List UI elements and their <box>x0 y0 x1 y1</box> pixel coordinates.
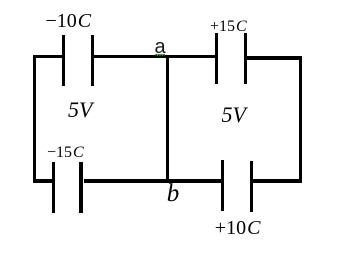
node a label <box>155 37 166 57</box>
node b label <box>167 181 180 206</box>
wire: right vertical <box>299 56 302 183</box>
wire: bottom-left horizontal (left corner to C3) <box>33 179 52 182</box>
capacitor C1 (-10C) left plate <box>62 35 65 86</box>
wire: middle vertical (node a to node b) <box>166 55 169 183</box>
node a squiggle underline <box>155 53 165 56</box>
label -15C <box>47 145 84 161</box>
wire: bottom middle horizontal (C3 to node b to C4) <box>84 179 222 182</box>
capacitor C2 (+15C) right plate <box>244 33 247 84</box>
capacitor C3 (-15C) right plate <box>79 162 82 213</box>
capacitor C3 (-15C) left plate <box>52 162 55 213</box>
label -10C <box>46 11 92 31</box>
capacitor C4 (+10C) right plate <box>250 161 253 212</box>
wire: top-right horizontal (C2 to right corner) <box>247 56 302 59</box>
wire: left vertical <box>33 55 36 182</box>
label 5V right <box>222 104 246 126</box>
capacitor C1 (-10C) right plate <box>91 35 94 86</box>
wire: bottom-right horizontal (C4 to right corner) <box>253 179 302 182</box>
capacitor C4 (+10C) left plate <box>221 160 224 211</box>
label +15C <box>210 19 247 35</box>
wire: top middle horizontal (C1 to node a to C2) <box>94 55 215 58</box>
capacitor C2 (+15C) left plate <box>215 33 218 84</box>
label +10C <box>215 218 261 238</box>
wire: top-left horizontal (to C1 left plate) <box>33 55 63 58</box>
label 5V left <box>68 99 92 121</box>
